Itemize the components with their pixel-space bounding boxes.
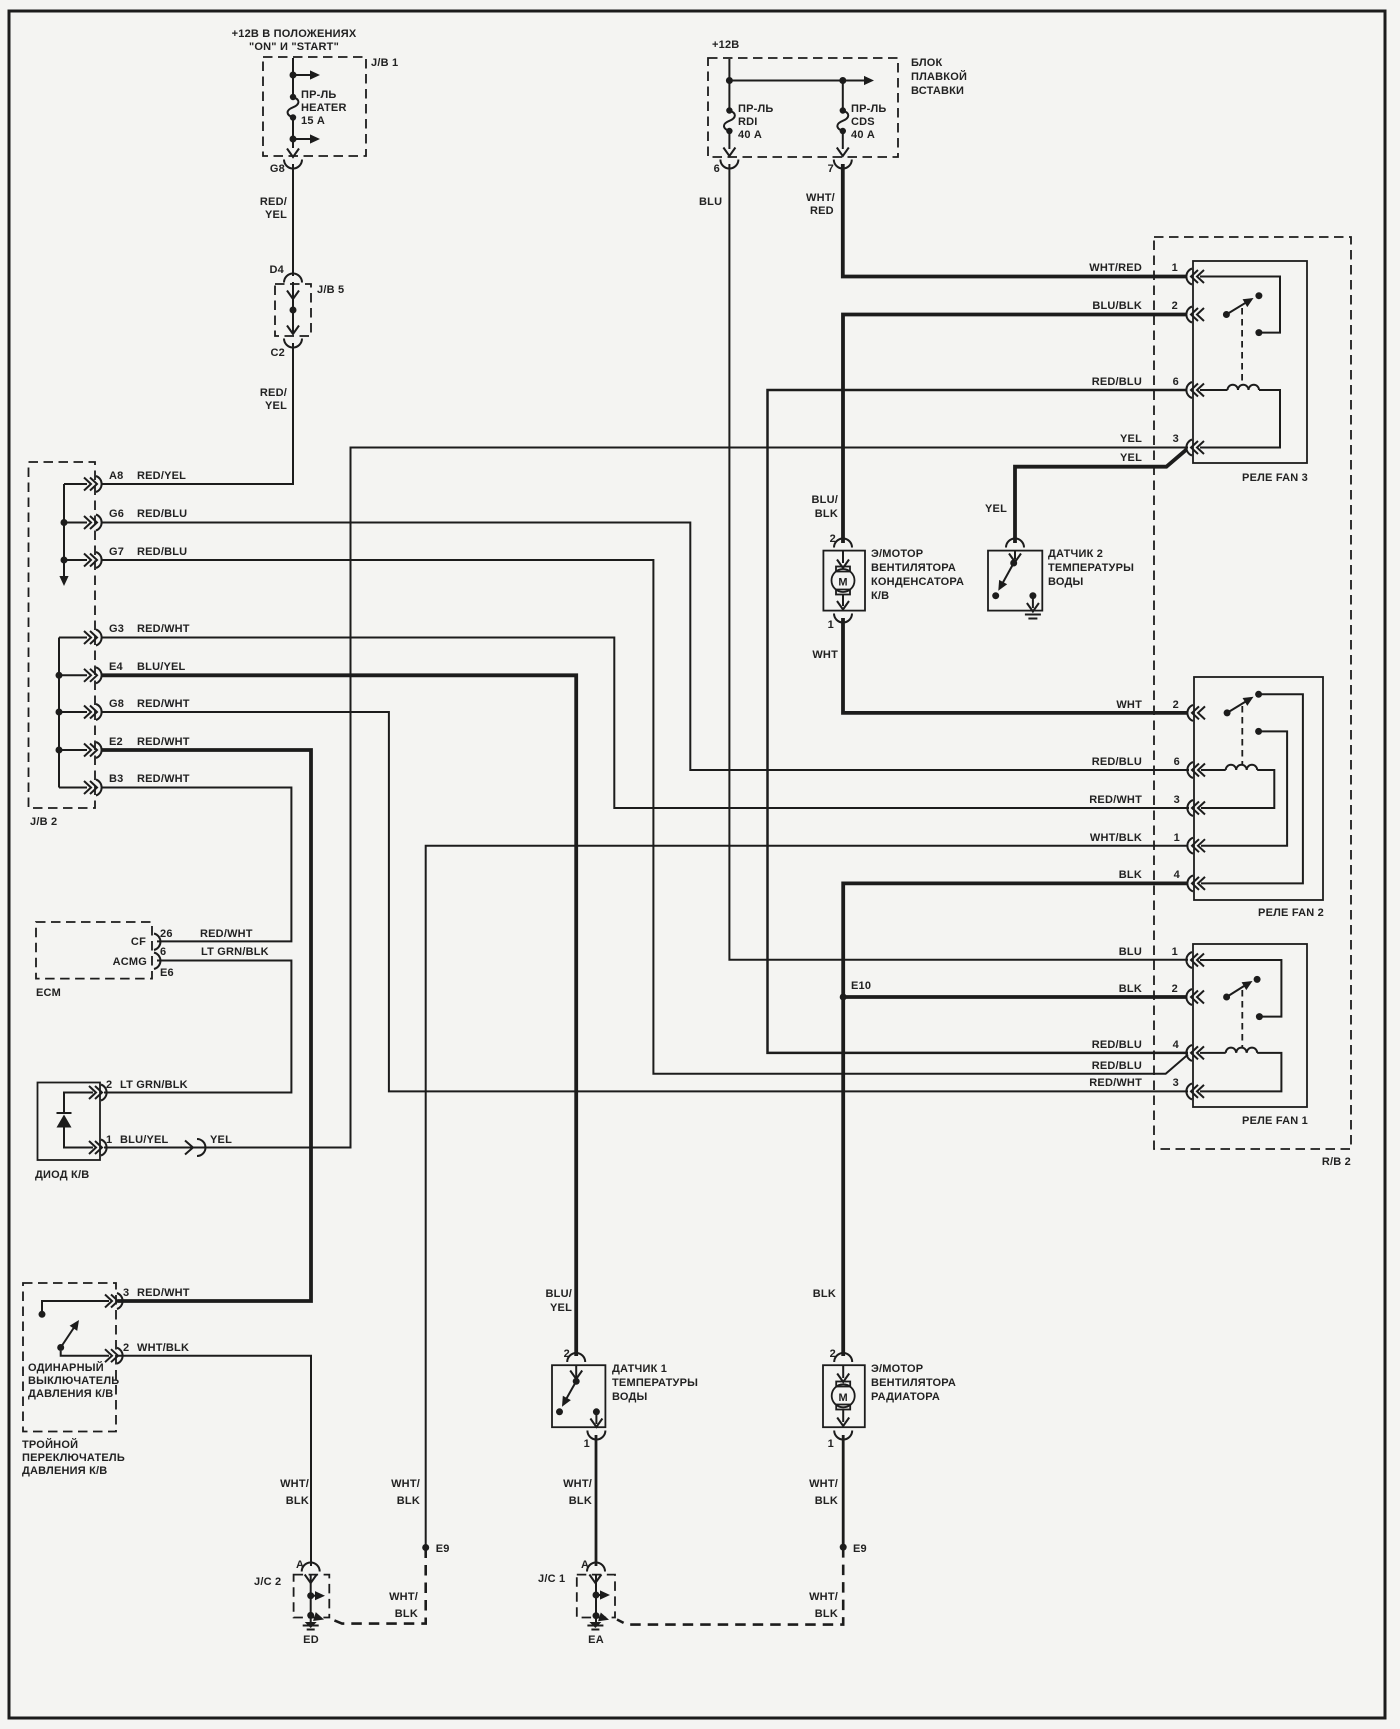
svg-text:LT GRN/BLK: LT GRN/BLK xyxy=(120,1079,188,1091)
svg-text:BLK: BLK xyxy=(815,1608,838,1620)
wire dashed WHT/BLK E9 right to J/C1 ground xyxy=(617,1547,843,1625)
label YEL upper xyxy=(1120,433,1142,445)
pin B3 of J/B2 xyxy=(84,773,190,796)
pin G6 of J/B2 xyxy=(84,508,187,531)
fuse RDI 40A xyxy=(724,103,774,141)
pin 2 of FAN1 xyxy=(1172,983,1204,1005)
svg-text:BLU: BLU xyxy=(699,196,722,208)
svg-text:CDS: CDS xyxy=(851,116,875,128)
fusible link block БЛОК ПЛАВКОЙ ВСТАВКИ xyxy=(708,57,967,157)
svg-text:G6: G6 xyxy=(109,508,124,520)
pin G8 exit arrow xyxy=(270,149,302,176)
svg-text:ДИОД К/В: ДИОД К/В xyxy=(35,1169,89,1181)
pin D4 xyxy=(270,264,302,283)
node branch arrow 2 in J/B1 xyxy=(290,134,321,143)
svg-text:WHT/RED: WHT/RED xyxy=(1089,262,1142,274)
svg-text:BLU/YEL: BLU/YEL xyxy=(137,661,186,673)
svg-text:RED/BLU: RED/BLU xyxy=(1092,1060,1142,1072)
wire WHT/RED fuse 7 to relay FAN3 pin 1 xyxy=(806,164,1186,277)
wire J/B1 internal feed xyxy=(292,58,294,96)
svg-text:RED/BLU: RED/BLU xyxy=(137,508,187,520)
pin 1 of condenser fan motor xyxy=(828,614,852,632)
wire FAN1 contact rail pin1 xyxy=(1200,960,1281,1020)
wire LT GRN/BLK ECM to diode pin 2 xyxy=(104,961,291,1093)
svg-text:"ON" И "START": "ON" И "START" xyxy=(249,41,339,53)
wire J/B2 bus 2 xyxy=(56,638,88,788)
water temp sensor 2 ДАТЧИК 2 ТЕМПЕРАТУРЫ ВОДЫ xyxy=(988,539,1134,619)
svg-text:BLK: BLK xyxy=(1119,983,1142,995)
svg-text:1: 1 xyxy=(1172,262,1178,274)
label BLK xyxy=(1119,869,1142,881)
svg-text:ТЕМПЕРАТУРЫ: ТЕМПЕРАТУРЫ xyxy=(1048,562,1134,574)
svg-text:RED/: RED/ xyxy=(260,387,287,399)
coil of FAN3 xyxy=(1200,385,1280,448)
relay U-FAN2 body xyxy=(1194,677,1324,919)
svg-text:2: 2 xyxy=(123,1342,129,1354)
svg-text:J/B 5: J/B 5 xyxy=(317,284,344,296)
wire YEL water temp sensor 2 to relay FAN3 pin 3 xyxy=(985,450,1187,544)
svg-text:RED/WHT: RED/WHT xyxy=(137,623,190,635)
pin C2 xyxy=(271,339,302,360)
svg-text:РЕЛЕ FAN 3: РЕЛЕ FAN 3 xyxy=(1242,472,1308,484)
wire dashed WHT/BLK E9 left to J/C2 ground xyxy=(331,1548,426,1624)
wire FAN2 NO contact to pin 4 xyxy=(1201,694,1303,883)
wire RED/WHT G3 to relay FAN2 pin 3 xyxy=(102,638,1189,809)
svg-text:YEL: YEL xyxy=(210,1134,232,1146)
pin 1 of diode xyxy=(89,1134,169,1156)
svg-text:2: 2 xyxy=(1173,699,1179,711)
label BLU/YEL above sensor 1 xyxy=(546,1288,573,1314)
switch of FAN1 xyxy=(1223,976,1261,1001)
svg-text:ВСТАВКИ: ВСТАВКИ xyxy=(911,85,964,97)
wire through J/B5 xyxy=(287,282,299,334)
pin 1 of water temp sensor 1 xyxy=(584,1431,606,1451)
svg-text:ДАВЛЕНИЯ К/В: ДАВЛЕНИЯ К/В xyxy=(28,1388,113,1400)
node +12V label xyxy=(712,39,739,51)
wire RED/BLU relay FAN3 pin 6 to relay FAN1 pin 4 xyxy=(768,390,1189,1053)
svg-text:6: 6 xyxy=(714,163,720,175)
svg-text:D4: D4 xyxy=(270,264,285,276)
svg-text:M: M xyxy=(838,577,847,589)
svg-text:3: 3 xyxy=(1173,433,1179,445)
svg-text:R/B 2: R/B 2 xyxy=(1322,1156,1351,1168)
svg-text:BLU/: BLU/ xyxy=(546,1288,572,1300)
svg-text:J/C 2: J/C 2 xyxy=(254,1576,281,1588)
pin 6 of FAN2 xyxy=(1174,756,1205,778)
switch of FAN3 xyxy=(1223,292,1263,318)
svg-text:E9: E9 xyxy=(436,1543,450,1555)
wire RED/BLU G7 to relay FAN1 pin 4 xyxy=(102,560,1188,1074)
svg-text:RED/WHT: RED/WHT xyxy=(137,1287,190,1299)
svg-text:ПР-ЛЬ: ПР-ЛЬ xyxy=(301,89,337,101)
dashed actuator link FAN2 xyxy=(1241,706,1243,764)
pin 3 of FAN1 xyxy=(1173,1077,1204,1099)
svg-text:YEL: YEL xyxy=(265,209,287,221)
svg-text:RDI: RDI xyxy=(738,116,758,128)
svg-text:WHT/: WHT/ xyxy=(391,1478,420,1490)
coil of FAN2 xyxy=(1201,765,1274,808)
svg-text:RED/BLU: RED/BLU xyxy=(137,546,187,558)
svg-text:RED/BLU: RED/BLU xyxy=(1092,376,1142,388)
svg-text:ПЕРЕКЛЮЧАТЕЛЬ: ПЕРЕКЛЮЧАТЕЛЬ xyxy=(22,1452,125,1464)
svg-text:E4: E4 xyxy=(109,661,124,673)
wire BLK E10 to relay FAN1 pin 2 xyxy=(843,995,1186,999)
wire FAN2 NC contact to pin 1 xyxy=(1201,728,1287,846)
wire RED/WHT E2 to pressure switch pin 3 xyxy=(102,750,311,1301)
svg-text:CF: CF xyxy=(131,936,146,948)
svg-text:BLK: BLK xyxy=(813,1288,836,1300)
svg-text:BLK: BLK xyxy=(395,1608,418,1620)
svg-text:1: 1 xyxy=(1172,946,1178,958)
svg-text:ОДИНАРНЫЙ: ОДИНАРНЫЙ xyxy=(28,1361,104,1374)
fuse CDS 40A xyxy=(837,103,886,141)
switch element inside pressure switch xyxy=(39,1301,110,1356)
pin 2 of condenser fan motor xyxy=(830,533,852,548)
wire J/B2 bus 1 xyxy=(59,484,87,586)
svg-text:РЕЛЕ FAN 2: РЕЛЕ FAN 2 xyxy=(1258,907,1324,919)
svg-text:BLU/YEL: BLU/YEL xyxy=(120,1134,169,1146)
label BLU xyxy=(1119,946,1142,958)
svg-text:ВОДЫ: ВОДЫ xyxy=(1048,576,1084,588)
svg-text:ПР-ЛЬ: ПР-ЛЬ xyxy=(738,103,774,115)
wire fuse output to G8 xyxy=(292,118,294,148)
wire RED/WHT B3 to ECM pin 26 xyxy=(102,788,291,942)
svg-text:WHT/BLK: WHT/BLK xyxy=(1090,832,1142,844)
svg-text:26: 26 xyxy=(160,928,173,940)
wire RED/YEL G8 to D4 xyxy=(260,164,293,276)
ground ED xyxy=(303,1615,319,1646)
svg-text:WHT/: WHT/ xyxy=(389,1591,418,1603)
svg-text:6: 6 xyxy=(1174,756,1180,768)
svg-text:J/C 1: J/C 1 xyxy=(538,1573,565,1585)
junction block J/B 1 xyxy=(263,57,398,156)
svg-text:ТРОЙНОЙ: ТРОЙНОЙ xyxy=(22,1438,78,1451)
svg-text:BLK: BLK xyxy=(569,1495,592,1507)
wire WHT condenser fan motor to relay FAN2 pin 2 xyxy=(812,618,1187,713)
label BLK xyxy=(1119,983,1142,995)
svg-text:BLK: BLK xyxy=(815,1495,838,1507)
node +12V ON/START label xyxy=(232,28,357,53)
pin 6 exit xyxy=(714,131,739,175)
svg-text:WHT/BLK: WHT/BLK xyxy=(137,1342,189,1354)
svg-text:3: 3 xyxy=(1174,794,1180,806)
svg-text:BLK: BLK xyxy=(1119,869,1142,881)
svg-text:WHT: WHT xyxy=(1116,699,1142,711)
svg-text:2: 2 xyxy=(1172,983,1178,995)
pin 2 of pressure switch xyxy=(105,1342,189,1364)
label WHT xyxy=(1116,699,1142,711)
svg-text:ПР-ЛЬ: ПР-ЛЬ xyxy=(851,103,887,115)
pin 2 of radiator fan motor xyxy=(830,1348,853,1362)
svg-text:ED: ED xyxy=(303,1634,319,1646)
pressure switch box xyxy=(23,1283,116,1432)
svg-text:6: 6 xyxy=(1173,376,1179,388)
svg-text:ACMG: ACMG xyxy=(113,956,147,968)
svg-text:RED/WHT: RED/WHT xyxy=(137,736,190,748)
node E9 right xyxy=(840,1543,867,1555)
wire fusebox bus xyxy=(726,59,874,109)
svg-text:RED/BLU: RED/BLU xyxy=(1092,1039,1142,1051)
svg-text:4: 4 xyxy=(1173,1039,1180,1051)
wire WHT/BLK sensor 1 to J/C1 xyxy=(563,1435,596,1566)
label single pressure switch xyxy=(28,1361,119,1400)
svg-text:1: 1 xyxy=(106,1134,112,1146)
pin E4 of J/B2 xyxy=(84,661,186,683)
svg-text:E2: E2 xyxy=(109,736,123,748)
svg-text:1: 1 xyxy=(828,1438,834,1450)
svg-text:WHT/: WHT/ xyxy=(809,1478,838,1490)
svg-text:ВЫКЛЮЧАТЕЛЬ: ВЫКЛЮЧАТЕЛЬ xyxy=(28,1375,119,1387)
wire WHT/BLK relay FAN2 pin 1 to node E9 left xyxy=(391,846,1187,1546)
svg-text:ECM: ECM xyxy=(36,987,61,999)
condenser fan motor Э/МОТОР ВЕНТИЛЯТОРА КОНДЕНСАТОРА К/В xyxy=(823,548,964,611)
pin 3 of FAN2 xyxy=(1174,794,1205,816)
svg-text:LT GRN/BLK: LT GRN/BLK xyxy=(201,946,269,958)
water temp sensor 1 ДАТЧИК 1 ТЕМПЕРАТУРЫ ВОДЫ xyxy=(552,1363,698,1427)
svg-text:ДАВЛЕНИЯ К/В: ДАВЛЕНИЯ К/В xyxy=(22,1465,107,1477)
svg-text:HEATER: HEATER xyxy=(301,102,347,114)
svg-text:C2: C2 xyxy=(271,347,285,359)
svg-text:EA: EA xyxy=(588,1634,604,1646)
node E10 xyxy=(840,980,871,1001)
ground EA xyxy=(587,1616,603,1646)
svg-text:RED/YEL: RED/YEL xyxy=(137,470,186,482)
svg-text:BLU: BLU xyxy=(1119,946,1142,958)
label triple pressure switch xyxy=(22,1438,125,1477)
svg-text:YEL: YEL xyxy=(550,1302,572,1314)
pin G3 of J/B2 xyxy=(84,623,190,646)
svg-text:WHT/: WHT/ xyxy=(809,1591,838,1603)
wire BLU/YEL E4 to water temp sensor 1 xyxy=(102,675,576,1356)
svg-text:E6: E6 xyxy=(160,967,174,979)
svg-text:YEL: YEL xyxy=(265,400,287,412)
pin 1 of FAN2 xyxy=(1174,832,1205,854)
svg-text:Э/МОТОР: Э/МОТОР xyxy=(871,1363,923,1375)
svg-text:RED/WHT: RED/WHT xyxy=(1089,794,1142,806)
svg-text:ДАТЧИК 2: ДАТЧИК 2 xyxy=(1048,548,1103,560)
svg-text:BLK: BLK xyxy=(815,508,838,520)
pin 1 of FAN1 xyxy=(1172,946,1204,968)
pin 1 of radiator fan motor xyxy=(828,1431,853,1451)
svg-text:3: 3 xyxy=(1173,1077,1179,1089)
svg-text:YEL: YEL xyxy=(985,503,1007,515)
svg-text:BLU/BLK: BLU/BLK xyxy=(1092,300,1142,312)
pin 3 of pressure switch xyxy=(105,1287,190,1309)
svg-text:RED/WHT: RED/WHT xyxy=(200,928,253,940)
svg-text:M: M xyxy=(839,1392,848,1404)
dashed actuator link FAN1 xyxy=(1241,990,1243,1047)
pin 2 of diode xyxy=(89,1079,188,1101)
svg-text:БЛОК: БЛОК xyxy=(911,57,943,69)
pin 2 of FAN2 xyxy=(1173,699,1205,721)
svg-text:6: 6 xyxy=(160,946,166,958)
svg-text:WHT/: WHT/ xyxy=(280,1478,309,1490)
wire FAN3 contact rail pin1 xyxy=(1200,277,1280,337)
pin 2 of water temp sensor 1 xyxy=(564,1348,586,1362)
svg-text:7: 7 xyxy=(828,163,834,175)
svg-text:ВЕНТИЛЯТОРА: ВЕНТИЛЯТОРА xyxy=(871,562,956,574)
pin 4 of FAN2 xyxy=(1174,869,1205,891)
svg-text:WHT/: WHT/ xyxy=(563,1478,592,1490)
svg-text:ПЛАВКОЙ: ПЛАВКОЙ xyxy=(911,70,967,83)
svg-text:RED: RED xyxy=(810,205,834,217)
svg-text:BLK: BLK xyxy=(286,1495,309,1507)
svg-text:К/В: К/В xyxy=(871,590,889,602)
ECU block ECM xyxy=(36,922,152,999)
pin 6 of FAN3 xyxy=(1173,376,1204,398)
pin A8 of J/B2 xyxy=(84,470,186,492)
label WHT/RED xyxy=(1089,262,1142,274)
svg-text:ВОДЫ: ВОДЫ xyxy=(612,1391,648,1403)
label YEL lower xyxy=(1120,452,1142,464)
svg-text:2: 2 xyxy=(1172,300,1178,312)
label RED/BLU lower xyxy=(1092,1060,1142,1072)
label RED/WHT xyxy=(1089,794,1142,806)
wire YEL diode pin 1 to relay FAN3 pin 3 xyxy=(104,448,1188,1148)
svg-text:WHT/: WHT/ xyxy=(806,192,835,204)
svg-text:G7: G7 xyxy=(109,546,124,558)
wire BLK relay FAN2 pin 4 to radiator fan motor pin 2 xyxy=(813,883,1187,1356)
svg-text:2: 2 xyxy=(106,1079,112,1091)
pin G8 of J/B2 xyxy=(84,698,190,720)
relay U-FAN3 body xyxy=(1193,261,1308,484)
label RED/BLU upper xyxy=(1092,1039,1142,1051)
label BLU/BLK xyxy=(1092,300,1142,312)
pin 7 exit xyxy=(828,131,852,175)
svg-text:Э/МОТОР: Э/МОТОР xyxy=(871,548,923,560)
junction block J/B 5 xyxy=(275,284,344,336)
svg-text:40 А: 40 А xyxy=(738,129,762,141)
svg-text:WHT: WHT xyxy=(812,649,838,661)
fuse HEATER 15A xyxy=(288,89,347,127)
pin G7 of J/B2 xyxy=(84,546,187,568)
radiator fan motor Э/МОТОР ВЕНТИЛЯТОРА РАДИАТОРА xyxy=(823,1363,956,1427)
pin 1 of FAN3 xyxy=(1172,262,1204,285)
pin ACMG/6/E6 of ECM xyxy=(113,946,269,979)
junction connector J/C 1 xyxy=(538,1559,615,1624)
svg-text:E10: E10 xyxy=(851,980,871,992)
svg-text:J/B 2: J/B 2 xyxy=(30,816,57,828)
svg-text:G3: G3 xyxy=(109,623,124,635)
svg-text:+12В: +12В xyxy=(712,39,739,51)
wire BLU fuse 6 to relay FAN1 pin 1 xyxy=(699,164,1188,960)
pin 2 of FAN3 xyxy=(1172,300,1204,323)
label RED/BLU xyxy=(1092,376,1142,388)
svg-text:ВЕНТИЛЯТОРА: ВЕНТИЛЯТОРА xyxy=(871,1377,956,1389)
svg-text:40 А: 40 А xyxy=(851,129,875,141)
label WHT/BLK xyxy=(1090,832,1142,844)
wire WHT/BLK pressure switch pin 2 to J/C2 xyxy=(118,1356,311,1566)
svg-text:A8: A8 xyxy=(109,470,123,482)
svg-text:3: 3 xyxy=(123,1287,129,1299)
svg-text:RED/WHT: RED/WHT xyxy=(1089,1077,1142,1089)
label WHT/BLK above J/C2 xyxy=(280,1478,309,1507)
svg-text:RED/BLU: RED/BLU xyxy=(1092,756,1142,768)
diode K/V box ДИОД К/В xyxy=(35,1083,100,1182)
svg-text:YEL: YEL xyxy=(1120,452,1142,464)
svg-text:RED/WHT: RED/WHT xyxy=(137,773,190,785)
svg-text:E9: E9 xyxy=(853,1543,867,1555)
svg-text:RED/: RED/ xyxy=(260,196,287,208)
svg-text:1: 1 xyxy=(584,1438,590,1450)
wire WHT/BLK radiator fan motor to node E9 right xyxy=(809,1435,843,1546)
svg-text:G8: G8 xyxy=(109,698,124,710)
dashed actuator link FAN3 xyxy=(1241,308,1243,384)
svg-text:J/B 1: J/B 1 xyxy=(371,57,398,69)
svg-text:YEL: YEL xyxy=(1120,433,1142,445)
svg-text:BLK: BLK xyxy=(397,1495,420,1507)
svg-text:15 А: 15 А xyxy=(301,115,325,127)
switch of FAN2 xyxy=(1224,691,1263,717)
pin CF/26 of ECM xyxy=(131,928,253,950)
junction block J/B 2 xyxy=(29,462,96,828)
inline connector on YEL wire xyxy=(185,1134,232,1156)
diode element xyxy=(57,1093,94,1148)
coil of FAN1 xyxy=(1200,1048,1281,1092)
svg-text:1: 1 xyxy=(828,619,834,631)
node branch arrow 1 in J/B1 xyxy=(290,70,321,79)
svg-text:1: 1 xyxy=(1174,832,1180,844)
pin E2 of J/B2 xyxy=(84,736,190,758)
pin 4 of FAN1 xyxy=(1173,1039,1204,1061)
svg-text:КОНДЕНСАТОРА: КОНДЕНСАТОРА xyxy=(871,576,964,588)
svg-text:РЕЛЕ FAN 1: РЕЛЕ FAN 1 xyxy=(1242,1115,1308,1127)
svg-text:RED/WHT: RED/WHT xyxy=(137,698,190,710)
relay U-FAN1 body xyxy=(1193,944,1308,1127)
svg-text:BLU/: BLU/ xyxy=(812,494,838,506)
node E9 left xyxy=(422,1543,449,1555)
wire RED/WHT G8 to relay FAN1 pin 3 xyxy=(102,712,1188,1091)
label RED/BLU xyxy=(1092,756,1142,768)
svg-text:РАДИАТОРА: РАДИАТОРА xyxy=(871,1391,940,1403)
wire RED/YEL C2 to J/B2 pin A8 xyxy=(102,343,293,484)
wire BLU/BLK relay FAN3 pin 2 to condenser fan motor pin 2 xyxy=(812,315,1186,544)
svg-text:ТЕМПЕРАТУРЫ: ТЕМПЕРАТУРЫ xyxy=(612,1377,698,1389)
svg-text:B3: B3 xyxy=(109,773,123,785)
wire RED/BLU G6 to relay FAN2 pin 6 xyxy=(102,523,1189,771)
pin 3 of FAN3 xyxy=(1173,433,1204,456)
junction connector J/C 2 xyxy=(254,1559,329,1624)
svg-text:+12В В ПОЛОЖЕНИЯХ: +12В В ПОЛОЖЕНИЯХ xyxy=(232,28,357,40)
svg-text:4: 4 xyxy=(1174,869,1181,881)
svg-text:ДАТЧИК 1: ДАТЧИК 1 xyxy=(612,1363,667,1375)
relay box R/B 2 xyxy=(1154,237,1351,1168)
svg-text:G8: G8 xyxy=(270,163,285,175)
label RED/WHT xyxy=(1089,1077,1142,1089)
